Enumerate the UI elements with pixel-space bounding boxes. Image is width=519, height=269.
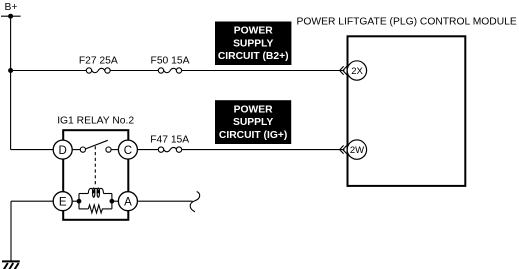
svg-text:D: D [59,145,67,157]
svg-text:F47 15A: F47 15A [150,135,189,146]
svg-text:2X: 2X [351,66,363,77]
svg-text:C: C [124,145,132,157]
svg-text:F50 15A: F50 15A [151,56,190,67]
svg-text:SUPPLY: SUPPLY [233,117,273,128]
svg-text:CIRCUIT (B2+): CIRCUIT (B2+) [218,51,289,62]
svg-text:POWER: POWER [234,26,273,37]
svg-text:POWER: POWER [234,104,273,115]
svg-text:SUPPLY: SUPPLY [233,38,273,49]
svg-text:2W: 2W [350,145,364,156]
svg-text:IG1 RELAY No.2: IG1 RELAY No.2 [57,116,134,127]
svg-text:E: E [59,196,67,208]
svg-text:POWER LIFTGATE (PLG) CONTROL M: POWER LIFTGATE (PLG) CONTROL MODULE [297,17,517,28]
svg-text:F27 25A: F27 25A [79,56,118,67]
svg-text:B+: B+ [5,2,18,13]
svg-text:CIRCUIT (IG+): CIRCUIT (IG+) [219,130,287,141]
svg-text:A: A [124,196,132,208]
